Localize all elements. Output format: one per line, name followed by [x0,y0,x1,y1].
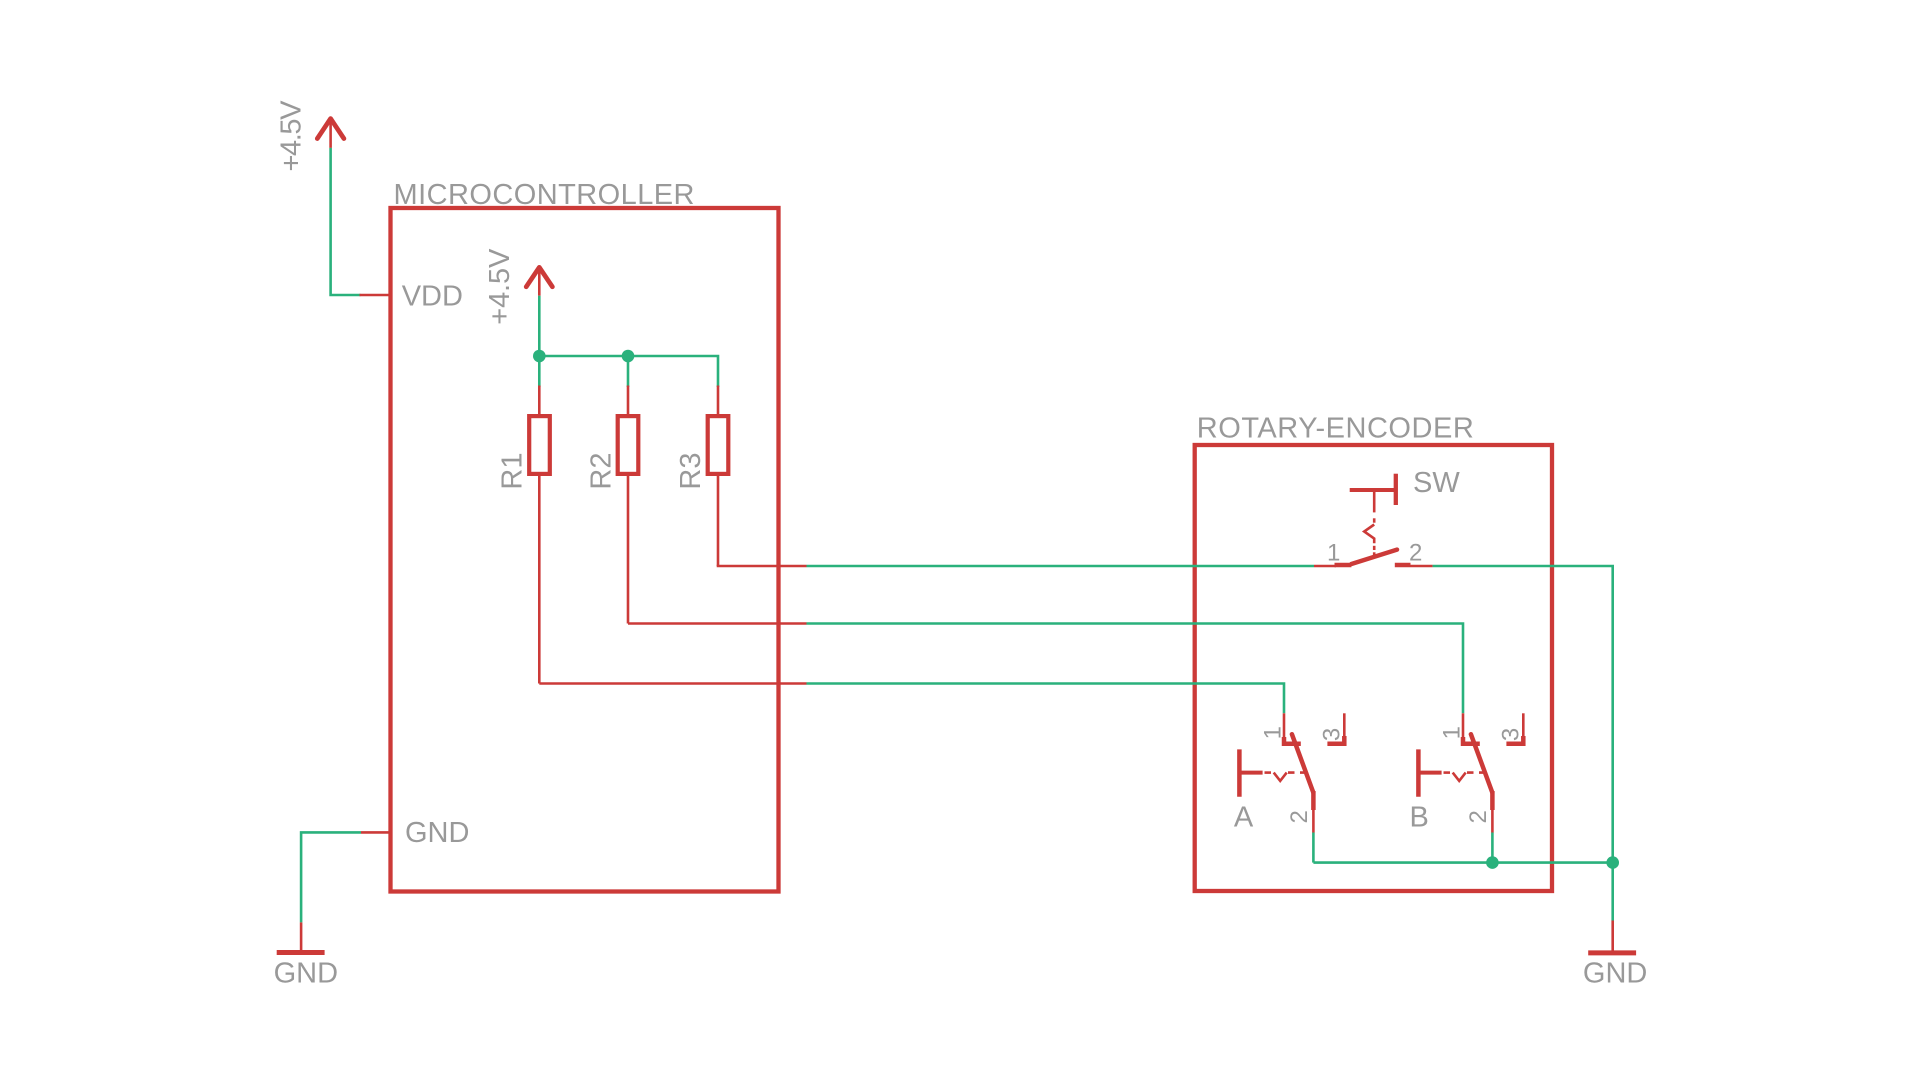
svg-text:1: 1 [1439,726,1466,739]
wire bottom net (green) [1313,861,1612,864]
actuator (A) [1237,749,1242,796]
wire +4.5V to VDD [331,148,361,295]
svg-text:B: B [1410,801,1429,833]
svg-text:2: 2 [1465,810,1492,823]
power +4.5V P2 (internal) [484,248,552,325]
wire net SW1 (green) [807,565,1315,568]
resistor R3 [675,386,728,567]
svg-text:GND: GND [1583,957,1647,989]
wire net B1 (green) [807,624,1464,714]
wire A2 down (green) [1312,833,1315,863]
junction B (bus R2) [622,350,635,363]
svg-text:GND: GND [274,958,338,990]
wire B2 down (green) [1491,833,1494,863]
gnd symbol left [274,922,338,989]
actuator (B) [1416,749,1421,796]
wire GND pin to gnd (green) [301,832,361,922]
junction D (right gnd) [1606,856,1619,869]
switch SW [1314,467,1460,567]
svg-text:+4.5V: +4.5V [484,248,516,325]
switch A [1234,713,1346,833]
svg-text:GND: GND [405,817,469,849]
svg-text:3: 3 [1498,728,1525,741]
wire net SW2 to GND (green) [1433,566,1613,921]
svg-text:ROTARY-ENCODER: ROTARY-ENCODER [1197,413,1474,445]
svg-text:1: 1 [1327,540,1340,567]
wire R3 pin stub (red) [718,565,807,566]
power +4.5V P1 (top-left) [276,100,344,172]
rotary encoder box [1195,413,1552,892]
svg-text:SW: SW [1413,467,1460,499]
junction C (B2 bottom) [1486,856,1499,869]
svg-text:VDD: VDD [402,280,463,312]
wire R2 pin stub (red) [628,622,807,625]
svg-text:MICROCONTROLLER: MICROCONTROLLER [394,179,695,211]
wire net A1 (green) [807,684,1285,714]
wire bus [539,356,718,387]
wire +4.5V to bus [538,296,541,356]
svg-text:2: 2 [1409,540,1422,567]
gnd symbol right [1583,921,1647,990]
svg-text:A: A [1234,801,1254,833]
pin 3 stub (B) [1522,713,1525,738]
pin 3 stub (A) [1343,713,1346,738]
wire R1 pin stub (red) [539,682,806,685]
wire bus to R2 [627,356,630,387]
svg-text:+4.5V: +4.5V [276,100,308,172]
svg-text:1: 1 [1260,726,1287,739]
svg-text:3: 3 [1319,728,1346,741]
switch B [1410,713,1525,833]
junction A (bus R1) [533,350,546,363]
pin VDD [360,280,463,312]
pin GND [361,817,469,849]
svg-text:R1: R1 [497,453,529,490]
resistor R1 [497,386,550,684]
svg-text:2: 2 [1286,810,1313,823]
svg-text:R2: R2 [586,453,618,490]
svg-text:R3: R3 [675,453,707,490]
wire bus to R1 [538,356,541,387]
microcontroller box [391,179,779,892]
resistor R2 [586,386,639,624]
